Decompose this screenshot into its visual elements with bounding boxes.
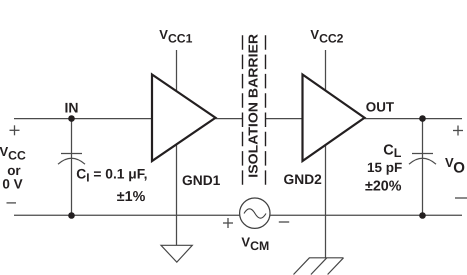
svg-text:CL: CL: [383, 143, 401, 160]
svg-text:15 pF: 15 pF: [367, 160, 402, 175]
svg-text:ISOLATION BARRIER: ISOLATION BARRIER: [245, 33, 260, 177]
svg-text:±20%: ±20%: [365, 178, 402, 194]
svg-text:±1%: ±1%: [117, 189, 146, 205]
svg-text:IN: IN: [65, 99, 79, 115]
svg-text:GND1: GND1: [182, 173, 221, 188]
svg-text:O: O: [453, 160, 465, 177]
svg-text:OUT: OUT: [366, 99, 395, 114]
svg-text:0 V: 0 V: [2, 177, 22, 192]
svg-text:GND2: GND2: [284, 172, 323, 187]
